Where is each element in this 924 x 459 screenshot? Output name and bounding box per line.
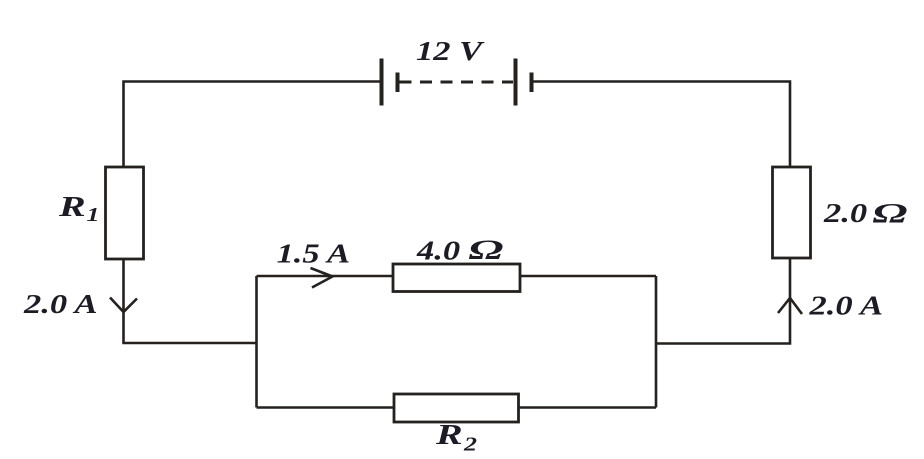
label: 2.0 A current right bbox=[808, 290, 883, 320]
svg-text:12 V: 12 V bbox=[416, 36, 485, 66]
wire: dashed link between battery cells bbox=[400, 81, 514, 84]
resistor R2 body (bottom branch) bbox=[394, 394, 519, 422]
svg-text:Ω: Ω bbox=[469, 235, 504, 265]
label: 12 V battery voltage bbox=[416, 36, 485, 66]
svg-text:1: 1 bbox=[87, 204, 100, 226]
label: 4.0 ohm value digits bbox=[416, 235, 460, 265]
label: 4.0 ohm value omega bbox=[469, 235, 504, 265]
label: R2 bbox=[435, 418, 463, 450]
svg-text:2.0: 2.0 bbox=[823, 198, 867, 228]
label: 2.0 A current left bbox=[23, 289, 98, 319]
label: 2.0 ohm value omega bbox=[873, 199, 908, 229]
svg-text:2.0 A: 2.0 A bbox=[808, 290, 883, 320]
svg-text:R: R bbox=[435, 418, 463, 450]
svg-text:Ω: Ω bbox=[873, 199, 908, 229]
battery B2 right cell long plate bbox=[514, 59, 518, 106]
battery B1 left cell short plate bbox=[396, 73, 400, 93]
label: R2 subscript 2 bbox=[463, 433, 478, 455]
wire: right vertical below right resistor down to middle-right rail bbox=[656, 258, 790, 344]
battery B1 left cell long plate bbox=[380, 59, 384, 106]
label: 2.0 ohm value digits bbox=[823, 198, 867, 228]
svg-text:1.5 A: 1.5 A bbox=[277, 238, 351, 268]
wire: bottom branch left segment bbox=[257, 406, 395, 409]
battery B2 right cell short plate bbox=[530, 73, 534, 93]
resistor 4.0 ohm body (top branch) bbox=[393, 264, 520, 292]
svg-text:2.0 A: 2.0 A bbox=[23, 289, 98, 319]
wire: top branch right segment bbox=[520, 275, 656, 278]
svg-text:2: 2 bbox=[463, 433, 478, 455]
arrowhead: current 2.0 A downward on left wire bbox=[110, 298, 137, 313]
svg-text:R: R bbox=[58, 190, 86, 222]
wire: right bus bar of parallel section bbox=[655, 276, 658, 408]
wire: top-left from battery to left branch corner and down to R1 bbox=[124, 82, 382, 168]
wire: top-right from battery to right corner and down to right resistor bbox=[532, 82, 791, 168]
wire: left vertical below R1 down to bottom-left rail, to parallel block bbox=[124, 259, 257, 343]
resistor 2.0 ohm body (right) bbox=[773, 167, 811, 258]
label: R1 subscript 1 bbox=[87, 204, 100, 226]
wire: bottom branch right segment bbox=[519, 406, 657, 409]
arrowhead: current 1.5 A rightward on top branch bbox=[311, 268, 333, 288]
resistor R1 body bbox=[106, 167, 144, 259]
svg-text:4.0: 4.0 bbox=[416, 235, 460, 265]
wire: top branch left segment bbox=[257, 275, 394, 278]
wire: left bus bar of parallel section bbox=[255, 276, 258, 408]
label: 1.5 A current bbox=[277, 238, 351, 268]
arrowhead: current 2.0 A upward on right wire bbox=[778, 298, 802, 314]
label: R1 bbox=[58, 190, 86, 222]
